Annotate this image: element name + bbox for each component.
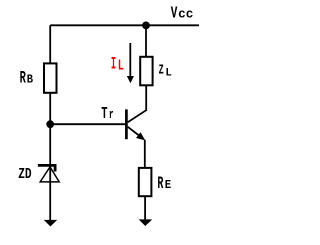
- junction: Vcc rail to ZL: [142, 22, 150, 30]
- zener diode ZD anode triangle: [40, 167, 59, 182]
- svg-text:I: I: [111, 54, 116, 74]
- resistor RB label: [20, 69, 33, 89]
- junction: base node: [46, 120, 54, 128]
- zener diode ZD cathode bar: [38, 164, 56, 171]
- svg-text:R: R: [20, 69, 26, 89]
- wire: base wire to transistor: [50, 123, 125, 125]
- zener diode ZD label: [18, 165, 31, 183]
- svg-text:R: R: [157, 174, 163, 194]
- wire: left vertical from Vcc rail to RB: [49, 25, 51, 63]
- resistor RE label: [157, 174, 171, 194]
- svg-text:T: T: [101, 105, 107, 124]
- current label IL: [111, 54, 124, 74]
- wire: base node down to zener ZD: [49, 124, 51, 165]
- resistor ZL label: [159, 64, 172, 80]
- node Vcc label: [171, 5, 194, 24]
- wire: ZL bottom to transistor collector: [128, 85, 147, 122]
- svg-text:r: r: [109, 108, 114, 122]
- wire: Vcc rail (top horizontal): [50, 24, 199, 26]
- svg-text:L: L: [118, 59, 124, 75]
- resistor ZL body: [140, 57, 152, 86]
- transistor Q1 base bar: [125, 109, 128, 139]
- transistor Q1 emitter with arrow: [128, 127, 146, 141]
- resistor RE body: [139, 168, 152, 196]
- svg-text:V: V: [171, 5, 178, 24]
- ground (left): [44, 220, 57, 227]
- current arrow IL: [127, 43, 134, 83]
- resistor RB body: [44, 63, 57, 92]
- svg-text:Z: Z: [159, 64, 164, 79]
- ground (right): [139, 219, 153, 226]
- svg-text:E: E: [165, 178, 171, 192]
- wire: emitter to RE: [144, 140, 146, 168]
- svg-text:L: L: [165, 67, 172, 79]
- wire: zener ZD to left ground: [49, 165, 51, 220]
- wire: RB bottom to base node: [49, 93, 51, 124]
- svg-text:ZD: ZD: [18, 165, 31, 183]
- transistor Tr label: [101, 105, 114, 124]
- wire: Vcc junction down to ZL: [145, 25, 147, 56]
- svg-text:cc: cc: [178, 8, 193, 22]
- wire: RE bottom to right ground: [144, 196, 146, 219]
- svg-text:B: B: [27, 73, 33, 87]
